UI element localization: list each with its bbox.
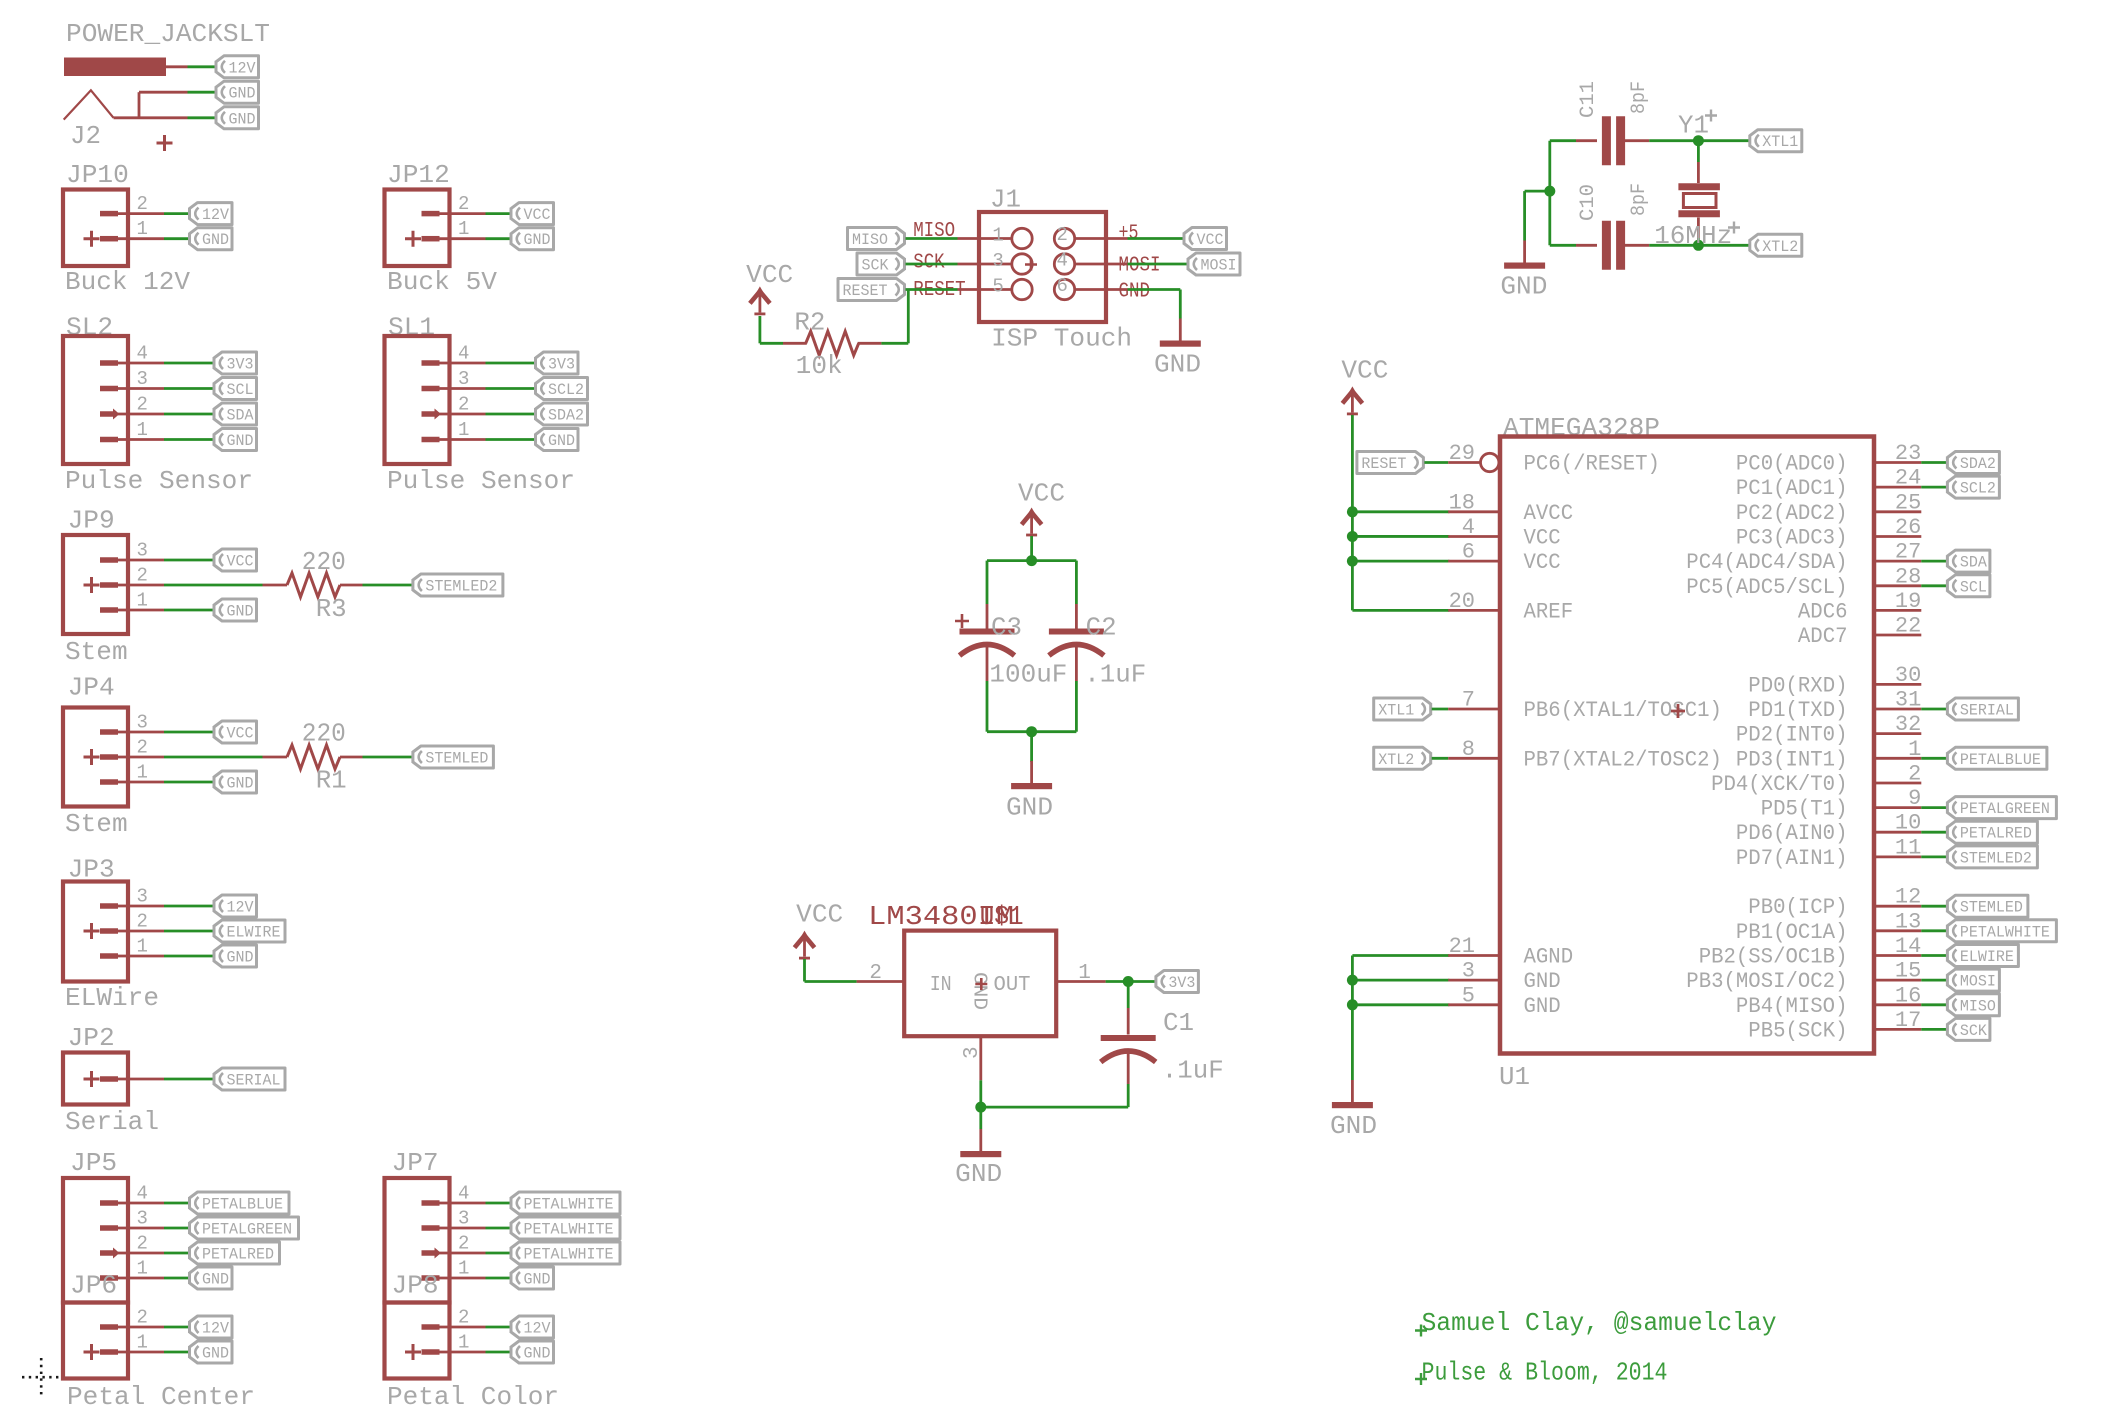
net flag GND [214,599,257,621]
svg-text:1: 1 [137,762,148,784]
U1 pin name PC1(ADC1) [1736,476,1848,501]
U1 box [1500,437,1874,1054]
C2 value .1uF [1084,660,1146,690]
svg-text:2: 2 [137,1233,148,1255]
svg-text:PC1(ADC1): PC1(ADC1) [1736,476,1848,501]
svg-text:27: 27 [1895,540,1921,565]
svg-text:RESET: RESET [1361,455,1406,473]
svg-text:MOSI: MOSI [1960,973,1996,991]
U1 pin number 25 [1895,490,1921,515]
net flag GND [214,771,257,793]
svg-text:ISP Touch: ISP Touch [991,324,1132,354]
svg-text:2: 2 [1908,762,1921,787]
svg-text:JP9: JP9 [68,506,115,536]
net flag ELWIRE [214,920,285,942]
wire net to GND [164,1277,189,1280]
svg-text:PETALBLUE: PETALBLUE [1960,751,2041,769]
svg-text:20: 20 [1449,589,1475,614]
resistor R1 [263,745,363,769]
svg-text:12V: 12V [202,1320,229,1338]
svg-text:XTL1: XTL1 [1378,702,1414,720]
JP6 polarity plus [84,1344,100,1360]
JP10 value label Buck 12V [65,267,190,297]
svg-text:1: 1 [137,590,148,612]
svg-text:GND: GND [1154,350,1201,380]
net flag GND [214,945,257,967]
net flag GND [216,81,259,103]
U1 pin number 29 [1449,441,1475,466]
svg-text:16: 16 [1895,983,1921,1008]
net flag SERIAL [214,1068,285,1090]
svg-text:4: 4 [1057,250,1068,272]
net flag RESET [1357,452,1424,474]
svg-text:1: 1 [458,1258,469,1280]
svg-text:12V: 12V [524,1320,551,1338]
svg-text:XTL2: XTL2 [1762,238,1798,256]
svg-text:1: 1 [137,1258,148,1280]
U1 pin number 23 [1895,441,1921,466]
SL2 pin number 3 [137,368,148,390]
JP10 pin 2 [100,211,164,217]
U1 pin 6 VCC [1448,560,1500,563]
JP12 pin number 1 [458,218,469,240]
wire J2 GND top [139,91,215,94]
svg-text:PD4(XCK/T0): PD4(XCK/T0) [1711,772,1847,797]
J1 pin 1 [958,228,1033,248]
JP2 value label Serial [65,1107,159,1137]
U1 pin number 21 [1449,934,1475,959]
JP5 pin 1 [100,1275,164,1281]
U1 pin 29 PC6(/RESET) [1448,453,1499,471]
JP9 pin number 3 [137,540,148,562]
svg-text:SCL: SCL [227,381,254,399]
svg-text:JP5: JP5 [70,1148,117,1178]
svg-text:GND: GND [227,603,254,621]
C3 polarity plus [955,614,969,628]
connector JP6 Petal Center lower [63,1271,255,1413]
U1 pin number 19 [1895,589,1921,614]
wire net to SCL [164,387,213,390]
svg-text:XTL1: XTL1 [1762,133,1798,151]
wire net to PETALWHITE [486,1252,511,1255]
wire crystal caps ground link [1548,141,1551,246]
J1 pin 5 [958,279,1033,299]
U1 pin 14 PB2(SS/OC1B) [1874,954,1921,957]
svg-text:SCL: SCL [1960,578,1987,596]
svg-text:SCK: SCK [862,257,889,275]
svg-text:2: 2 [137,565,148,587]
wire U1 to PETALBLUE [1921,757,1946,760]
svg-text:STEMLED: STEMLED [425,750,488,768]
wire GND to U1 pin 3 [1352,979,1449,982]
R1 name label [316,766,347,796]
svg-text:R3: R3 [316,594,347,624]
ground symbol at crystal [1504,241,1545,269]
svg-text:SERIAL: SERIAL [227,1072,281,1090]
svg-text:VCC: VCC [524,206,551,224]
VCC label above C3 C2 [1018,479,1065,509]
svg-text:PC2(ADC2): PC2(ADC2) [1736,501,1848,526]
net flag SCK [857,253,905,275]
J1 origin cross [1025,259,1037,271]
svg-text:4: 4 [458,343,469,365]
net flag 3V3 [214,352,257,374]
net flag MOSI [1947,969,1999,991]
svg-text:SDA: SDA [1960,554,1987,572]
U1 pin 27 PC4(ADC4/SDA) [1874,560,1921,563]
JP7 pin 3 [422,1225,486,1231]
svg-text:GND: GND [202,1345,229,1363]
wire net to SDA [164,413,213,416]
JP6 pin 2 [100,1324,164,1330]
VCC label at regulator [796,900,843,930]
net flag VCC [1184,228,1227,250]
svg-text:2: 2 [458,1307,469,1329]
svg-text:R2: R2 [794,308,825,338]
U1 pin 30 PD0(RXD) [1874,683,1921,686]
svg-text:1: 1 [137,218,148,240]
svg-text:U$1: U$1 [980,903,1024,933]
JP12 value label Buck 5V [387,267,497,297]
svg-text:ELWIRE: ELWIRE [1960,948,2014,966]
wire to GND below caps [1030,732,1033,762]
net flag MOSI [1188,253,1240,275]
wire net to PETALWHITE [486,1202,511,1205]
svg-text:SCL2: SCL2 [548,381,584,399]
net flag SCL [1947,575,1990,597]
svg-text:PD0(RXD): PD0(RXD) [1748,673,1847,698]
wire JP9 pin2 to R3 [164,584,263,587]
svg-text:SCK: SCK [1960,1022,1987,1040]
net flag 12V [214,895,257,917]
U1 pin number 9 [1908,786,1921,811]
svg-text:Samuel Clay, @samuelclay: Samuel Clay, @samuelclay [1422,1308,1777,1338]
U1 pin 10 PD6(AIN0) [1874,831,1921,834]
wire VCC rail at U1 [1351,415,1354,610]
svg-text:8: 8 [1462,737,1475,762]
net flag GND [190,228,233,250]
svg-text:IN: IN [930,974,952,997]
wire MOSI net [1128,263,1188,266]
U1 pin 21 AGND [1448,954,1500,957]
U1 pin 5 GND [1448,1003,1500,1006]
svg-text:VCC: VCC [227,725,254,743]
svg-text:C1: C1 [1163,1008,1194,1038]
svg-text:J2: J2 [70,121,101,151]
svg-text:12V: 12V [202,206,229,224]
U1 pin 4 VCC [1448,535,1500,538]
svg-text:GND: GND [227,432,254,450]
connector JP2 Serial [63,1023,285,1137]
wire U1 to SDA2 [1921,461,1946,464]
net flag GND [190,1341,233,1363]
SL1 pin number 3 [458,368,469,390]
svg-text:100uF: 100uF [989,660,1067,690]
svg-text:VCC: VCC [1341,356,1388,386]
U1 pin number 7 [1462,688,1475,713]
svg-text:4: 4 [1462,515,1475,540]
J1 pin name +5 [1119,223,1139,246]
wire net to PETALBLUE [164,1202,189,1205]
svg-text:2: 2 [458,193,469,215]
svg-text:JP4: JP4 [68,673,115,703]
wire U1 to PETALWHITE [1921,929,1946,932]
svg-text:2: 2 [137,737,148,759]
U1 pin 32 PD2(INT0) [1874,732,1921,735]
U$1 pin number 3 rotated [961,1046,984,1059]
U1 pin name PD0(RXD) [1748,673,1847,698]
connector J1 ISP header [913,185,1160,354]
svg-text:PETALWHITE: PETALWHITE [1960,923,2050,941]
svg-text:PETALGREEN: PETALGREEN [202,1221,292,1239]
wire U1 to SCL [1921,584,1946,587]
svg-text:GND: GND [1524,994,1561,1019]
connector JP3 ELWire [63,855,285,1014]
U1 pin number 14 [1895,934,1921,959]
U1 pin name ADC7 [1798,624,1848,649]
capacitor C1 [1101,1008,1156,1084]
SL1 pin 2 [422,409,486,420]
svg-text:13: 13 [1895,909,1921,934]
svg-text:10k: 10k [796,351,843,381]
svg-text:1: 1 [1908,737,1921,762]
Y1 name label [1678,111,1709,141]
U1 pin 1 PD3(INT1) [1874,757,1921,760]
U1 pin name PC4(ADC4/SDA) [1686,550,1847,575]
U$1 origin cross [975,978,987,990]
wire U1 to SCK [1921,1028,1946,1031]
svg-text:GND: GND [1119,281,1151,304]
Y1 value 16MHz [1654,221,1732,251]
svg-text:12V: 12V [227,899,254,917]
svg-text:OUT: OUT [994,974,1031,997]
net flag GND [511,1341,554,1363]
svg-text:1: 1 [137,419,148,441]
SL2 pin 4 [100,360,164,366]
SL2 pin 1 [100,437,164,443]
U1 pin 26 PC3(ADC3) [1874,535,1921,538]
U1 pin number 22 [1895,614,1921,639]
svg-text:.1uF: .1uF [1084,660,1146,690]
wire JP4 pin2 to R1 [164,756,263,759]
J1 pin number 3 [992,250,1003,272]
JP10 pin number 2 [137,193,148,215]
svg-text:PD5(T1): PD5(T1) [1761,797,1848,822]
JP8 pin 2 [422,1324,486,1330]
net flag STEMLED [413,746,494,768]
svg-text:SCL2: SCL2 [1960,480,1996,498]
U1 pin 31 PD1(TXD) [1874,708,1921,711]
wire net to GND [164,1351,189,1354]
svg-text:1: 1 [1078,962,1091,985]
svg-text:R1: R1 [316,766,347,796]
svg-text:PD2(INT0): PD2(INT0) [1736,723,1848,748]
svg-text:VCC: VCC [1018,479,1065,509]
net flag SDA [1947,550,1990,572]
wire U1 to PETALRED [1921,831,1946,834]
J1 value label ISP Touch [991,324,1132,354]
U1 pin name PB5(SCK) [1748,1018,1847,1043]
resistor R3 [263,573,363,597]
connector JP9 Stem [63,506,257,668]
svg-text:220: 220 [302,719,346,749]
svg-text:11: 11 [1895,835,1921,860]
net flag SDA [214,403,257,425]
U1 pin 19 ADC6 [1874,609,1921,612]
JP3 pin 3 [100,903,164,909]
net flag PETALGREEN [1947,797,2056,819]
svg-text:GND: GND [969,972,991,1010]
svg-text:8pF: 8pF [1628,81,1651,114]
JP10 pin number 1 [137,218,148,240]
svg-text:PETALWHITE: PETALWHITE [524,1246,614,1264]
JP4 pin 3 [100,729,164,735]
wire RESET to U1 [1424,461,1448,464]
J1 pin 6 [1054,279,1127,299]
wire net to 12V [164,212,189,215]
svg-text:3: 3 [1462,959,1475,984]
wire net to GND [486,438,535,441]
svg-text:PB0(ICP): PB0(ICP) [1748,895,1847,920]
U1 pin name PB6(XTAL1/TOSC1) [1524,698,1722,723]
J1 pin name MOSI [1119,255,1161,278]
svg-text:POWER_JACKSLT: POWER_JACKSLT [66,19,270,49]
J1 pin name RESET [913,279,966,302]
svg-text:PC5(ADC5/SCL): PC5(ADC5/SCL) [1686,575,1847,600]
J1 pin name SCK [913,252,945,275]
svg-text:Pulse Sensor: Pulse Sensor [65,466,253,496]
U1 pin number 30 [1895,663,1921,688]
junction VCC pin 6 [1347,556,1358,567]
U1 pin number 2 [1908,762,1921,787]
svg-text:PC3(ADC3): PC3(ADC3) [1736,526,1848,551]
U1 pin 22 ADC7 [1874,634,1921,637]
svg-text:4: 4 [458,1183,469,1205]
svg-text:Buck 5V: Buck 5V [387,267,497,297]
svg-text:STEMLED2: STEMLED2 [425,578,497,596]
svg-text:PB4(MISO): PB4(MISO) [1736,994,1848,1019]
svg-text:29: 29 [1449,441,1475,466]
svg-text:PB2(SS/OC1B): PB2(SS/OC1B) [1699,945,1848,970]
wire net to VCC [164,559,213,562]
SL2 pin number 2 [137,394,148,416]
svg-text:1: 1 [458,419,469,441]
net flag GND [214,429,257,451]
JP7 box [385,1178,450,1303]
U1 pin name PD1(TXD) [1748,698,1847,723]
svg-text:9: 9 [1908,786,1921,811]
svg-text:JP8: JP8 [392,1271,439,1301]
ground symbol below caps [1011,761,1052,789]
J1 pin name MISO [913,220,955,243]
connector J2 power jack barrel [64,58,166,77]
svg-text:XTL2: XTL2 [1378,751,1414,769]
JP12 pin 2 [422,211,486,217]
U1 pin number 16 [1895,983,1921,1008]
U1 pin number 13 [1895,909,1921,934]
svg-text:12: 12 [1895,885,1921,910]
J1 pin number 1 [992,225,1003,247]
wire net to SERIAL [164,1078,213,1081]
JP7 pin 1 [422,1275,486,1281]
JP2 pin [100,1076,164,1082]
net flag XTL2 [1374,747,1431,769]
wire VCC to U1 pin 4 [1352,535,1449,538]
JP5 pin 2 [100,1248,164,1259]
svg-text:Pulse Sensor: Pulse Sensor [387,466,575,496]
JP2 polarity plus [84,1071,100,1087]
svg-text:AGND: AGND [1524,945,1574,970]
svg-text:PC6(/RESET): PC6(/RESET) [1524,452,1660,477]
JP9 pin 2 [100,582,164,588]
svg-text:GND: GND [955,1159,1002,1189]
JP8 pin number 2 [458,1307,469,1329]
net flag ELWIRE [1947,945,2018,967]
GND label [1154,350,1201,380]
U1 pin name PC6(/RESET) [1524,452,1660,477]
net flag SDA2 [536,403,588,425]
wire GND to U1 pin 5 [1352,1003,1449,1006]
net flag GND [190,1267,233,1289]
wire cap bottom bus [987,681,1076,732]
svg-text:GND: GND [202,1271,229,1289]
connector JP7 Petal Color [385,1148,621,1303]
svg-text:MISO: MISO [1960,997,1996,1015]
text credit line 2 [1415,1358,1668,1388]
U1 pin name PD4(XCK/T0) [1711,772,1847,797]
svg-text:3: 3 [137,712,148,734]
net flag XTL2 [1750,234,1802,256]
svg-text:GND: GND [1500,272,1547,302]
connector J2 chevron contact [64,90,114,119]
regulator U$1 pin 3 GND [979,1036,982,1080]
capacitor C10 [1576,221,1649,270]
svg-text:C2: C2 [1086,613,1117,643]
svg-text:3: 3 [992,250,1003,272]
svg-text:JP7: JP7 [392,1148,439,1178]
svg-text:2: 2 [458,1233,469,1255]
svg-text:PETALWHITE: PETALWHITE [524,1196,614,1214]
U1 pin name PD5(T1) [1761,797,1848,822]
JP3 pin number 2 [137,911,148,933]
svg-text:SDA: SDA [227,407,254,425]
JP9 polarity plus [84,577,100,593]
wire +5 to VCC flag [1128,237,1184,240]
connector JP10 Buck 12V [63,160,232,297]
wire C10 to XTL2 [1649,244,1749,247]
JP12 polarity plus [405,231,421,247]
svg-text:JP12: JP12 [387,160,450,190]
svg-text:2: 2 [137,1307,148,1329]
Y1 origin cross [1705,110,1717,122]
connector SL2 Pulse Sensor [63,313,257,497]
svg-text:3: 3 [961,1046,984,1059]
capacitor C3 [960,604,1015,681]
JP12 pin 1 [422,236,486,242]
connector JP4 Stem [63,673,257,840]
microcontroller U1 ATMEGA328P [1448,413,2056,1092]
R2 value 10k [796,351,843,381]
U1 pin name PD3(INT1) [1736,747,1848,772]
wire net to GND [486,1277,511,1280]
SL2 pin number 1 [137,419,148,441]
wire R3 to STEMLED2 [363,584,412,587]
U1 pin name PC2(ADC2) [1736,501,1848,526]
net flag STEMLED2 [413,574,503,596]
U$1 pin number 2 [869,962,882,985]
net flag 12V [511,1316,554,1338]
svg-text:1: 1 [137,1332,148,1354]
